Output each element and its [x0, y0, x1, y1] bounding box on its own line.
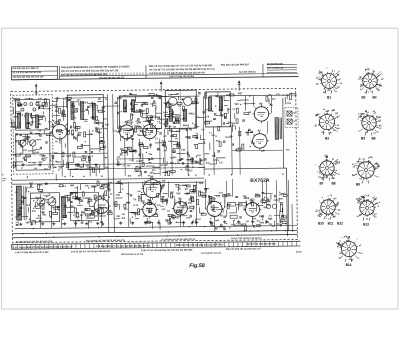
svg-text:B13: B13: [363, 223, 369, 227]
parts list table top band: [11, 63, 298, 80]
svg-text:R31: R31: [106, 184, 111, 186]
FM unit lower components: [72, 130, 99, 167]
variable capacitor C-AM 2: [48, 198, 56, 206]
svg-text:47n: 47n: [192, 189, 197, 192]
FM unit enclosure: [67, 95, 104, 170]
svg-text:B4: B4: [372, 96, 376, 100]
tuning gang enclosure AM: [30, 193, 59, 222]
svg-text:330: 330: [34, 168, 37, 170]
svg-text:22k: 22k: [70, 205, 75, 208]
vertical bus wires x108 x113: [107, 94, 114, 232]
tube B1 UCC85 triode: [50, 120, 69, 141]
svg-text:g2: g2: [337, 74, 339, 76]
svg-text:2M2 5k6 5k6 0,5 S2 25p: 2M2 5k6 5k6 0,5 S2 25p: [121, 254, 144, 256]
svg-text:Fig.58: Fig.58: [189, 263, 205, 269]
output transformer S24: [275, 118, 282, 140]
svg-text:3-30: 3-30: [176, 211, 181, 214]
svg-text:B2: B2: [361, 96, 365, 100]
tube base diagram B2 B4: [358, 69, 384, 100]
tuner lower components: [21, 147, 45, 167]
scattered small components lower left: [15, 181, 114, 227]
tube B6 UL84 output pentode upper: [252, 102, 271, 123]
AF section small parts: [161, 197, 194, 221]
svg-text:25p: 25p: [90, 116, 95, 119]
svg-text:B1: B1: [327, 96, 331, 100]
svg-text:C33: C33: [73, 222, 77, 224]
schematic outer dashed border: [11, 88, 298, 242]
mains cord wire: [291, 204, 293, 232]
svg-text:R27: R27: [211, 135, 215, 137]
svg-text:5k6: 5k6: [139, 160, 144, 163]
tube base diagram B3: [315, 109, 341, 141]
loudspeaker: [287, 111, 296, 124]
tube B5 AF amplifier: [172, 197, 190, 217]
svg-text:10k: 10k: [261, 198, 266, 201]
scattered small components upper left: [11, 96, 110, 174]
electrolytic capacitors C60 C61: [224, 204, 277, 218]
AM mixer components box: [70, 192, 98, 220]
svg-text:s: s: [342, 237, 343, 239]
mid horizontal wire 3: [70, 168, 204, 170]
svg-text:C18: C18: [129, 160, 132, 162]
svg-text:1M: 1M: [101, 123, 104, 125]
svg-text:2M2: 2M2: [36, 102, 41, 104]
mains dropper resistor: [280, 203, 283, 212]
scattered small components upper right: [200, 91, 298, 164]
svg-text:2n2: 2n2: [167, 210, 170, 212]
mid-left horizontal wire: [12, 153, 108, 154]
svg-text:68p: 68p: [118, 97, 123, 100]
svg-text:aD: aD: [377, 166, 380, 168]
svg-text:g1: g1: [338, 79, 340, 81]
svg-text:68p: 68p: [38, 124, 43, 126]
left margin marks: [2, 174, 6, 181]
tube base diagram B7 B8: [315, 155, 341, 185]
svg-text:g3: g3: [326, 156, 328, 158]
output section bottom wire: [204, 167, 286, 170]
svg-text:1M: 1M: [95, 167, 98, 169]
svg-text:B12: B12: [337, 222, 343, 226]
svg-text:25p: 25p: [172, 151, 177, 153]
svg-text:68p: 68p: [251, 142, 256, 145]
tuner trimmer capacitors: [18, 102, 45, 111]
svg-text:1M: 1M: [246, 221, 249, 223]
svg-text:R19: R19: [56, 161, 61, 164]
svg-text:4p7: 4p7: [17, 209, 22, 212]
svg-text:C62: C62: [218, 214, 223, 217]
svg-text:B10: B10: [318, 222, 324, 226]
tube B8 UY85 rectifier: [205, 197, 224, 219]
top supply rail: [54, 95, 289, 98]
smoothing resistors: [227, 202, 246, 218]
tube B10 UBC81 demodulator: [92, 195, 111, 216]
svg-text:B5: B5: [361, 137, 365, 141]
antenna input arrow: [35, 83, 38, 95]
svg-text:220: 220: [54, 105, 57, 107]
svg-text:1n5: 1n5: [186, 136, 191, 139]
tube B2 UCH81 triode-heptode: [118, 121, 136, 142]
AF coupling components: [236, 108, 249, 149]
ratio detector transformer can: [205, 92, 230, 127]
svg-text:3-30: 3-30: [38, 98, 42, 100]
tube base diagram B14: [336, 236, 364, 267]
svg-text:25p: 25p: [138, 126, 143, 129]
svg-text:39p: 39p: [266, 205, 271, 207]
scattered small components lower mid: [113, 176, 210, 230]
svg-text:22k: 22k: [261, 149, 266, 152]
svg-text:C8: C8: [196, 133, 198, 135]
svg-text:R27 C8 5k6 C18: R27 C8 5k6 C18: [267, 68, 284, 70]
svg-text:1M: 1M: [162, 179, 165, 182]
svg-text:3-30: 3-30: [276, 94, 280, 96]
type designation BX762A: [250, 178, 270, 184]
tuning gang capacitor C5: [20, 140, 37, 153]
bottom chassis rail 2: [12, 230, 297, 233]
scattered small components mid band: [116, 139, 206, 177]
svg-text:L3: L3: [178, 163, 180, 165]
tube base diagram B13: [356, 195, 381, 227]
svg-text:1M: 1M: [58, 119, 61, 121]
tube B7 UL84 output pentode lower: [250, 129, 269, 150]
dipole input arrow: [238, 80, 241, 91]
svg-text:k2: k2: [360, 179, 362, 181]
grid bias wire: [232, 149, 283, 152]
svg-text:560: 560: [235, 103, 240, 106]
tube base diagram B1: [316, 68, 343, 100]
component number row under schematic: [16, 237, 262, 244]
svg-text:S2 0,5 R15 6k8 150 S2 R15: S2 0,5 R15 6k8 150 S2 R15: [12, 72, 41, 74]
tube base diagram B10 B11 B12: [315, 195, 343, 226]
upper horizontal wire 5: [54, 105, 119, 108]
svg-text:1k2: 1k2: [160, 206, 163, 208]
tube B9 EM80 tuning indicator: [141, 175, 163, 200]
parts table text rows: [12, 62, 284, 80]
svg-text:BX762A: BX762A: [250, 178, 270, 184]
bottom table text: [13, 242, 277, 257]
mid horizontal rail lower: [12, 182, 204, 184]
svg-text:5k6: 5k6: [26, 122, 31, 125]
scattered small components lower right: [208, 192, 287, 232]
svg-text:B7: B7: [319, 182, 323, 186]
tuner coils L1 L2 L3: [17, 113, 38, 128]
svg-text:5k6: 5k6: [176, 192, 181, 195]
svg-text:B3: B3: [325, 137, 329, 141]
svg-text:R27: R27: [75, 217, 80, 219]
bottom chassis rail 3: [12, 234, 297, 237]
tuner upper box: [15, 99, 49, 130]
figure caption Fig.58: [189, 263, 205, 269]
oscillator mixer box: [119, 96, 161, 129]
speaker dashed enclosure: [285, 107, 298, 127]
svg-text:47n: 47n: [160, 118, 165, 121]
svg-text:aD: aD: [375, 163, 378, 165]
svg-text:61281: 61281: [296, 251, 302, 253]
svg-text:8p2: 8p2: [142, 109, 147, 112]
svg-text:C33: C33: [66, 155, 71, 158]
bottom chassis rail 1: [15, 225, 297, 228]
tube B11 ballast: [243, 198, 261, 219]
bottom coil data table: [11, 241, 300, 249]
svg-text:4p7: 4p7: [282, 218, 287, 221]
svg-text:1M: 1M: [227, 109, 230, 111]
svg-text:R27: R27: [238, 92, 243, 95]
svg-text:g1: g1: [366, 219, 368, 221]
svg-text:2M2: 2M2: [260, 222, 265, 224]
mid horizontal wire 4: [116, 158, 162, 161]
ground symbols row: [19, 220, 282, 226]
svg-text:25p: 25p: [61, 196, 66, 199]
variable capacitor C-AM 1: [37, 198, 45, 206]
scattered small components upper mid: [113, 93, 206, 142]
FM unit coils: [71, 101, 96, 119]
svg-text:C62: C62: [49, 125, 54, 128]
svg-text:68p: 68p: [202, 194, 207, 197]
tube base diagram B9: [352, 157, 380, 187]
svg-text:B11: B11: [328, 222, 334, 226]
tube B4 UABC80 triode: [141, 199, 159, 219]
svg-text:B14: B14: [346, 263, 352, 267]
tube B3 UF89 IF amplifier: [141, 120, 159, 141]
IF transformer S9 S10 can: [165, 90, 196, 128]
B plus vertical rail: [283, 98, 288, 236]
volume potentiometer R20: [136, 209, 142, 215]
B1 anode components: [55, 98, 65, 124]
tube base diagram B5 B6: [358, 110, 383, 140]
svg-text:330: 330: [150, 171, 155, 174]
ferrite rod antenna coil: [16, 186, 26, 220]
junction dots on rails: [13, 95, 286, 238]
svg-text:4p7: 4p7: [193, 184, 198, 187]
drawing number 61281: [296, 251, 302, 253]
svg-text:R15: R15: [268, 217, 273, 220]
tuner lower box: [16, 134, 50, 170]
vertical interconnect wires: [44, 95, 272, 211]
mid horizontal rail upper: [12, 178, 204, 180]
svg-text:68p: 68p: [164, 103, 169, 105]
tuner unit dashed enclosure: [13, 95, 53, 174]
svg-text:2M2: 2M2: [212, 155, 216, 157]
svg-text:5k6: 5k6: [183, 124, 188, 127]
IF input arrow: [160, 81, 163, 92]
svg-text:B6: B6: [371, 137, 375, 141]
svg-text:C62: C62: [40, 154, 45, 157]
extra vertical wires 2: [39, 95, 289, 234]
svg-text:560: 560: [40, 105, 45, 108]
svg-text:B9: B9: [356, 183, 360, 187]
svg-text:C47: C47: [116, 194, 121, 197]
svg-text:R19: R19: [259, 216, 264, 218]
mid horizontal wire 2: [12, 163, 200, 165]
oscillator box components: [123, 100, 155, 123]
svg-text:B8: B8: [331, 182, 335, 186]
AM oscillator coil S5: [61, 197, 65, 218]
